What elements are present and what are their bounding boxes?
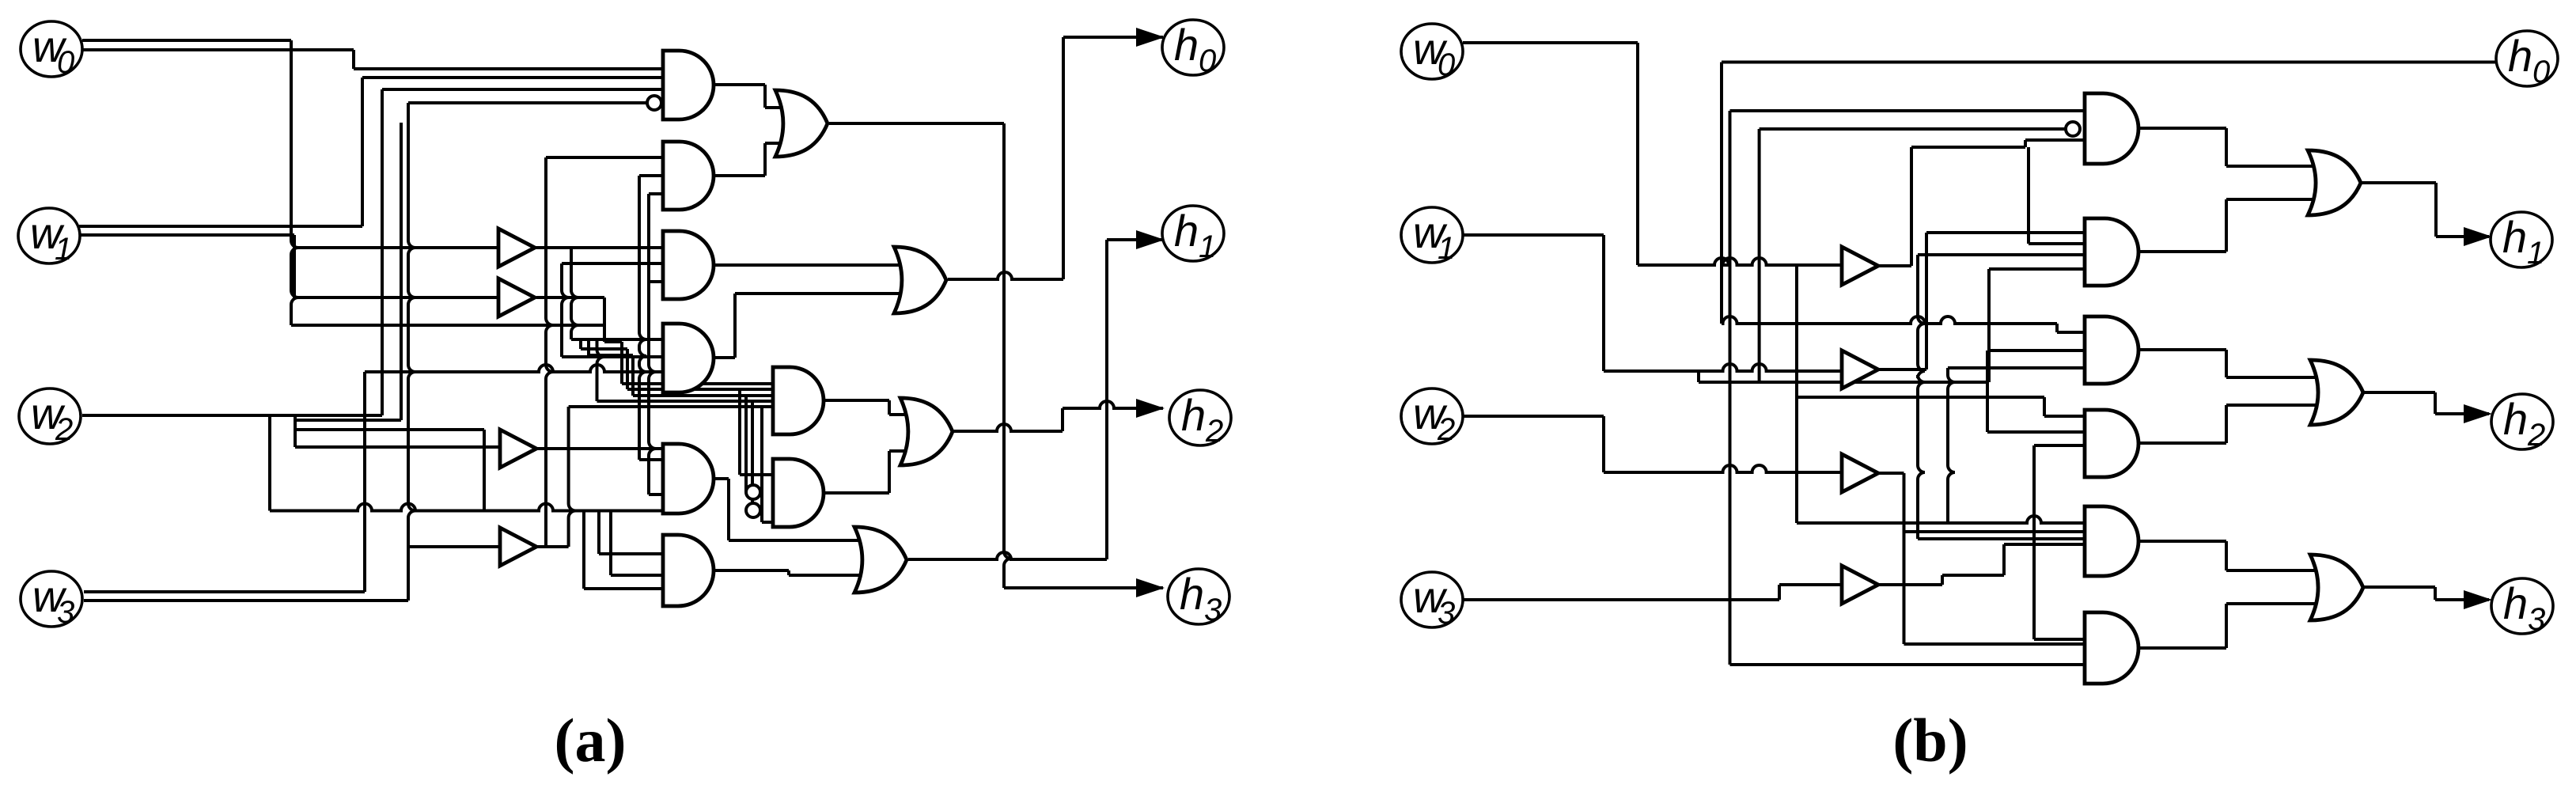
svg-text:2: 2: [55, 412, 73, 447]
svg-text:(b): (b): [1892, 706, 1968, 775]
svg-text:h: h: [2503, 578, 2528, 628]
svg-text:2: 2: [2527, 418, 2545, 453]
svg-text:h: h: [1180, 569, 1204, 619]
svg-text:h: h: [2503, 394, 2528, 444]
svg-text:3: 3: [57, 595, 74, 630]
svg-text:h: h: [1174, 206, 1199, 256]
svg-text:0: 0: [1438, 47, 1455, 82]
svg-text:3: 3: [2528, 602, 2545, 637]
svg-text:3: 3: [1438, 596, 1455, 631]
svg-text:0: 0: [57, 45, 74, 80]
svg-text:0: 0: [2532, 55, 2550, 89]
svg-text:(a): (a): [555, 706, 627, 775]
svg-text:h: h: [1174, 20, 1199, 70]
svg-text:h: h: [1181, 390, 1206, 440]
svg-text:2: 2: [1205, 414, 1223, 449]
svg-text:0: 0: [1199, 44, 1216, 78]
svg-text:1: 1: [2527, 236, 2544, 271]
svg-text:h: h: [2508, 31, 2532, 81]
svg-text:3: 3: [1204, 593, 1222, 627]
svg-text:1: 1: [1438, 231, 1455, 266]
svg-text:2: 2: [1437, 412, 1455, 447]
svg-text:1: 1: [55, 232, 72, 267]
svg-text:h: h: [2502, 212, 2527, 262]
svg-text:1: 1: [1199, 229, 1216, 264]
